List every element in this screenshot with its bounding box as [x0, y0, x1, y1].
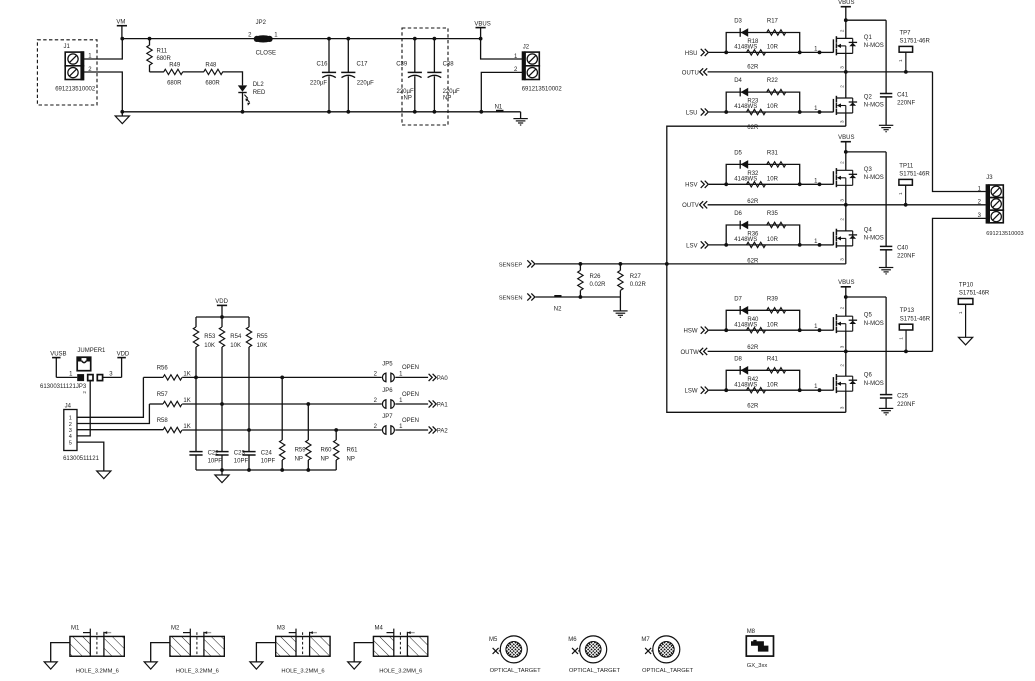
svg-text:10K: 10K: [230, 343, 241, 349]
svg-text:10PF: 10PF: [208, 459, 223, 465]
svg-text:0.02R: 0.02R: [630, 282, 647, 288]
svg-text:10R: 10R: [767, 322, 779, 328]
svg-text:220NF: 220NF: [897, 101, 915, 107]
svg-text:220NF: 220NF: [897, 254, 915, 260]
svg-text:OPTICAL_TARGET: OPTICAL_TARGET: [490, 668, 542, 674]
svg-text:R22: R22: [767, 78, 779, 84]
svg-text:HSW: HSW: [684, 329, 698, 335]
wire SENSEN row: [536, 296, 621, 298]
svg-text:R61: R61: [347, 448, 359, 454]
svg-text:N-MOS: N-MOS: [864, 321, 884, 327]
wire OUTU row: [708, 71, 933, 73]
wire J4 pin1 to row PA0: [77, 377, 143, 417]
svg-text:R57: R57: [157, 392, 169, 398]
svg-text:N-MOS: N-MOS: [864, 43, 884, 49]
svg-text:10K: 10K: [257, 343, 268, 349]
svg-text:R60: R60: [321, 448, 333, 454]
svg-text:220µF: 220µF: [443, 89, 460, 95]
svg-text:JP2: JP2: [256, 20, 267, 26]
transistor Q6 N-MOS: [820, 389, 834, 391]
junction dots: [724, 388, 728, 392]
junction ground rail at J1: [120, 110, 124, 114]
net flag PA0: [429, 374, 433, 381]
capacitor C16 220uF: [327, 37, 331, 41]
wire low-side source loop: [667, 126, 846, 412]
resistor R61 NP: [335, 430, 337, 440]
svg-text:61300511121: 61300511121: [63, 456, 99, 462]
LED DL2 RED: [238, 85, 247, 91]
wire row PA0: [143, 376, 163, 378]
svg-text:D8: D8: [734, 356, 742, 362]
svg-text:10R: 10R: [767, 177, 779, 183]
svg-text:R59: R59: [295, 448, 307, 454]
wire JP6 to PA1: [395, 403, 428, 405]
svg-text:DL2: DL2: [253, 82, 265, 88]
junction loop SENSEP: [665, 262, 669, 266]
svg-text:NP: NP: [443, 96, 451, 102]
svg-text:C40: C40: [897, 246, 909, 252]
ground symbol TP10: [959, 337, 973, 345]
svg-text:HOLE_3.2MM_6: HOLE_3.2MM_6: [176, 668, 219, 674]
svg-text:10PF: 10PF: [261, 459, 276, 465]
svg-text:Q2: Q2: [864, 95, 873, 101]
svg-text:C24: C24: [261, 451, 273, 457]
wire VM top rail: [122, 38, 480, 40]
svg-text:R35: R35: [767, 211, 779, 217]
svg-text:D7: D7: [734, 296, 742, 302]
svg-text:C25: C25: [897, 394, 909, 400]
svg-text:M8: M8: [747, 629, 756, 635]
svg-text:3: 3: [840, 406, 845, 409]
svg-text:PA1: PA1: [437, 402, 449, 408]
resistor R56 1K: [163, 375, 182, 380]
svg-text:R40: R40: [747, 317, 759, 323]
svg-text:3: 3: [840, 345, 845, 348]
svg-text:220µF: 220µF: [397, 89, 414, 95]
svg-text:220µF: 220µF: [357, 81, 374, 87]
ground symbol mid section: [221, 470, 223, 475]
svg-text:R39: R39: [767, 296, 779, 302]
ground rail wire: [122, 111, 520, 113]
svg-text:OPEN: OPEN: [402, 418, 419, 424]
svg-text:0.02R: 0.02R: [590, 282, 607, 288]
junction dots: [724, 182, 728, 186]
diode D5 4148WS: [739, 160, 741, 169]
svg-text:SENSEN: SENSEN: [499, 296, 523, 302]
resistor R27 0.02R: [619, 262, 623, 266]
svg-text:N-MOS: N-MOS: [864, 381, 884, 387]
capacitor C39 220uF NP: [413, 37, 417, 41]
resistor R32 62R: [747, 182, 766, 187]
resistor R55 10K: [248, 317, 250, 327]
svg-text:VBUS: VBUS: [838, 135, 854, 141]
transistor Q4 N-MOS: [820, 244, 834, 246]
svg-text:1: 1: [898, 192, 903, 195]
svg-text:JP6: JP6: [382, 388, 393, 394]
wire VBUS to Q5 drain and bypass branch: [846, 296, 886, 298]
svg-text:VBUS: VBUS: [838, 0, 854, 6]
svg-text:1: 1: [958, 311, 963, 314]
svg-text:TP10: TP10: [959, 282, 974, 288]
wire J1 pin2 to ground rail: [84, 72, 123, 112]
svg-text:D4: D4: [734, 78, 742, 84]
resistor R11 680R: [148, 37, 152, 41]
wire OUTW row: [708, 350, 933, 352]
resistor R18 62R: [747, 50, 766, 55]
capacitor C40 220NF bypass: [885, 152, 887, 247]
resistor R49 680R: [164, 69, 183, 74]
svg-text:R31: R31: [767, 150, 779, 156]
svg-text:2: 2: [82, 391, 87, 394]
resistor R17 10R: [767, 30, 786, 35]
svg-text:1K: 1K: [183, 398, 190, 404]
svg-text:1: 1: [69, 416, 72, 422]
svg-text:M5: M5: [489, 637, 498, 643]
svg-text:2: 2: [69, 422, 72, 428]
resistor R36 62R: [747, 242, 766, 247]
resistor R40 62R: [747, 328, 766, 333]
svg-text:Q3: Q3: [864, 167, 873, 173]
wire gate network D5 branch: [726, 164, 800, 184]
resistor R59 NP: [281, 377, 283, 440]
capacitor C24 10PF: [248, 430, 250, 452]
capacitor C17 220uF: [346, 37, 350, 41]
wire OUTW rise to J3 pin3: [933, 218, 986, 351]
svg-text:62R: 62R: [747, 345, 759, 351]
svg-text:NP: NP: [404, 96, 412, 102]
svg-text:JP5: JP5: [382, 362, 393, 368]
capacitor C25 220NF bypass: [885, 297, 887, 395]
wire R48 to DL2: [222, 72, 242, 86]
wire JP5 to PA0: [395, 376, 428, 378]
transistor Q2 N-MOS: [820, 111, 834, 113]
resistor R60 NP: [307, 404, 309, 440]
svg-text:HSV: HSV: [685, 183, 697, 189]
ground symbol C25: [879, 407, 893, 409]
svg-text:Q6: Q6: [864, 373, 873, 379]
svg-text:M4: M4: [375, 626, 384, 632]
resistor R48 680R: [204, 69, 223, 74]
transistor Q1 N-MOS: [820, 51, 834, 53]
svg-text:3: 3: [840, 66, 845, 69]
wire LSV row: [726, 244, 819, 246]
svg-text:62R: 62R: [747, 403, 759, 409]
wire M1 to ground: [51, 643, 70, 662]
diode D7 4148WS: [739, 306, 741, 315]
wire Q4 source to loop: [667, 263, 846, 265]
svg-text:R18: R18: [747, 39, 759, 45]
capacitor C41 220NF bypass: [885, 20, 887, 93]
svg-text:M7: M7: [641, 637, 650, 643]
svg-text:CLOSE: CLOSE: [256, 51, 276, 57]
svg-text:VUSB: VUSB: [50, 352, 66, 358]
svg-text:HOLE_3.2MM_6: HOLE_3.2MM_6: [281, 668, 324, 674]
svg-text:R17: R17: [767, 19, 779, 25]
svg-text:N-MOS: N-MOS: [864, 236, 884, 242]
svg-text:10R: 10R: [767, 382, 779, 388]
svg-text:N1: N1: [495, 104, 503, 110]
svg-text:5: 5: [69, 440, 72, 446]
transistor Q5 N-MOS: [820, 329, 834, 331]
svg-text:680R: 680R: [167, 80, 182, 86]
wire J2 pin2 to ground rail: [481, 72, 522, 111]
svg-text:OPTICAL_TARGET: OPTICAL_TARGET: [569, 668, 621, 674]
svg-text:NP: NP: [295, 457, 303, 463]
svg-text:SENSEP: SENSEP: [499, 262, 523, 268]
wire J4 pin5 to ground: [77, 442, 104, 471]
svg-text:680R: 680R: [205, 80, 220, 86]
svg-text:S1751-46R: S1751-46R: [900, 39, 931, 45]
wire row PA2: [182, 429, 382, 431]
svg-text:JP7: JP7: [382, 414, 393, 420]
svg-text:1: 1: [898, 59, 903, 62]
svg-text:62R: 62R: [747, 64, 759, 70]
svg-text:R36: R36: [747, 232, 759, 238]
ground symbol M3: [250, 662, 263, 669]
svg-text:R56: R56: [157, 366, 169, 372]
svg-text:691213510003: 691213510003: [986, 231, 1023, 237]
wire M3 to ground: [256, 643, 275, 662]
wire HSU row: [726, 51, 819, 53]
svg-text:10PF: 10PF: [234, 459, 249, 465]
wire J4 pin2 to row PA1: [77, 404, 149, 424]
svg-text:LSU: LSU: [686, 110, 698, 116]
svg-text:220µF: 220µF: [310, 81, 327, 87]
svg-text:GX_3xx: GX_3xx: [747, 663, 768, 669]
svg-text:M1: M1: [71, 626, 80, 632]
ground symbol C41: [879, 124, 893, 126]
wire gate network D6 branch: [726, 225, 800, 245]
svg-text:VM: VM: [116, 19, 125, 25]
svg-text:691213510002: 691213510002: [522, 87, 563, 93]
svg-text:D6: D6: [734, 211, 742, 217]
svg-text:VBUS: VBUS: [474, 21, 490, 27]
svg-text:R23: R23: [747, 99, 759, 105]
svg-text:M3: M3: [277, 626, 286, 632]
svg-text:S1751-46R: S1751-46R: [959, 291, 990, 297]
wire JUMPER1 pin2 to J4 pin4: [77, 381, 90, 436]
svg-text:691213510002: 691213510002: [55, 87, 96, 93]
net flag PA2: [429, 426, 433, 433]
svg-text:2: 2: [840, 29, 845, 32]
svg-text:M6: M6: [568, 637, 577, 643]
svg-text:R48: R48: [205, 63, 217, 69]
svg-text:4: 4: [69, 434, 72, 440]
svg-text:M2: M2: [171, 626, 180, 632]
svg-text:VBUS: VBUS: [838, 280, 854, 286]
wire HSV row: [726, 183, 819, 185]
svg-text:VDD: VDD: [117, 352, 130, 358]
wire LSW row: [726, 389, 819, 391]
diode D8 4148WS: [739, 366, 741, 375]
resistor R41 10R: [767, 368, 786, 373]
svg-text:LSW: LSW: [684, 389, 697, 395]
svg-text:OPEN: OPEN: [402, 392, 419, 398]
transistor Q3 N-MOS: [820, 183, 834, 185]
svg-text:2: 2: [840, 161, 845, 164]
svg-text:R54: R54: [230, 334, 242, 340]
wire row PA1: [149, 403, 163, 405]
wire OUTU drop to J3 pin1: [933, 72, 986, 192]
resistor R23 62R: [747, 109, 766, 114]
wire VBUS to Q3 drain and bypass branch: [846, 151, 886, 153]
capacitor C23 10PF: [221, 404, 223, 452]
svg-text:N-MOS: N-MOS: [864, 175, 884, 181]
wire HSW row: [726, 329, 819, 331]
diode D6 4148WS: [739, 221, 741, 230]
wire LSU row: [726, 111, 819, 113]
svg-text:10K: 10K: [204, 343, 215, 349]
svg-text:R26: R26: [590, 274, 602, 280]
svg-text:2: 2: [840, 364, 845, 367]
ground symbol M1: [44, 662, 57, 669]
wire M4 to ground: [354, 643, 373, 662]
svg-text:R41: R41: [767, 356, 779, 362]
svg-text:PA2: PA2: [437, 428, 449, 434]
svg-text:C39: C39: [396, 62, 408, 68]
svg-text:J4: J4: [65, 404, 72, 410]
ground symbol M2: [144, 662, 157, 669]
svg-text:3: 3: [840, 258, 845, 261]
svg-text:S1751-46R: S1751-46R: [900, 316, 931, 322]
svg-text:C16: C16: [317, 62, 329, 68]
svg-text:3: 3: [840, 199, 845, 202]
svg-text:1K: 1K: [183, 424, 190, 430]
svg-text:10R: 10R: [767, 104, 779, 110]
wire gate network D4 branch: [726, 92, 800, 112]
resistor R57 1K: [163, 401, 182, 406]
svg-text:HOLE_3.2MM_6: HOLE_3.2MM_6: [76, 668, 119, 674]
resistor R35 10R: [767, 222, 786, 227]
wire gate network D3 branch: [726, 33, 800, 53]
svg-text:R11: R11: [157, 49, 168, 55]
wire VDD to JUMPER1 pin3: [103, 376, 122, 378]
svg-text:1: 1: [898, 337, 903, 340]
svg-text:R27: R27: [630, 274, 642, 280]
diode D4 4148WS: [739, 88, 741, 97]
svg-text:1K: 1K: [183, 371, 190, 377]
ground symbol C40: [879, 267, 893, 269]
svg-text:R42: R42: [747, 377, 759, 383]
ground symbol J4: [97, 471, 111, 479]
wire OUTV row to J3 pin2: [708, 204, 986, 206]
svg-text:D3: D3: [734, 19, 742, 25]
ground symbol below VM rail: [121, 112, 123, 116]
svg-text:HOLE_3.2MM_6: HOLE_3.2MM_6: [379, 668, 422, 674]
wire VUSB to JUMPER1 pin1: [56, 376, 77, 378]
connector J1 dashed outline: [37, 40, 97, 105]
junction dots: [724, 243, 728, 247]
svg-text:2: 2: [840, 306, 845, 309]
resistor R22 10R: [767, 89, 786, 94]
svg-text:NP: NP: [347, 457, 355, 463]
svg-text:220NF: 220NF: [897, 402, 915, 408]
diode D3 4148WS: [739, 28, 741, 37]
svg-text:TP13: TP13: [900, 308, 915, 314]
wire J4 pin3 to row PA2: [77, 429, 163, 431]
net flag PA1: [429, 400, 433, 407]
svg-text:R58: R58: [157, 418, 169, 424]
svg-text:HSU: HSU: [685, 51, 698, 57]
svg-text:OUTW: OUTW: [680, 350, 699, 356]
wire VBUS to J2 pin1: [481, 39, 522, 59]
wire R49 to R48: [183, 71, 204, 73]
svg-text:NP: NP: [321, 457, 329, 463]
wire VDD rail: [196, 316, 249, 318]
svg-text:J2: J2: [523, 45, 530, 51]
svg-text:R55: R55: [257, 334, 269, 340]
svg-text:R53: R53: [204, 334, 216, 340]
dashed outline C39 C38 group: [402, 28, 448, 125]
wire R11 to R49: [150, 71, 164, 73]
svg-text:OUTV: OUTV: [682, 203, 699, 209]
ground symbol sense: [619, 297, 621, 311]
wire DL2 to ground rail: [242, 93, 244, 112]
wire VBUS to Q1 drain and bypass branch: [846, 19, 886, 21]
svg-text:3: 3: [840, 120, 845, 123]
svg-text:PA0: PA0: [437, 376, 449, 382]
ground symbol M4: [348, 662, 361, 669]
resistor R58 1K: [163, 427, 182, 432]
resistor R42 62R: [747, 388, 766, 393]
resistor R26 0.02R: [579, 262, 583, 266]
svg-text:RED: RED: [253, 90, 266, 96]
svg-text:OPTICAL_TARGET: OPTICAL_TARGET: [642, 668, 694, 674]
svg-text:680R: 680R: [157, 56, 172, 62]
svg-text:VDD: VDD: [215, 299, 228, 305]
node VBUS junction: [479, 37, 483, 41]
svg-text:R32: R32: [747, 171, 759, 177]
svg-text:R49: R49: [169, 63, 181, 69]
resistor R39 10R: [767, 308, 786, 313]
wire gate network D7 branch: [726, 310, 800, 330]
wire JP7 to PA2: [395, 429, 428, 431]
svg-text:JUMPER1: JUMPER1: [77, 348, 106, 354]
svg-text:N-MOS: N-MOS: [864, 103, 884, 109]
wire J1 pin1 to VM rail: [84, 39, 123, 59]
junction dots: [724, 110, 728, 114]
svg-text:LSV: LSV: [686, 243, 697, 249]
svg-text:62R: 62R: [747, 199, 759, 205]
svg-text:61300311121JP3: 61300311121JP3: [40, 384, 87, 390]
resistor R53 10K: [195, 317, 197, 327]
svg-text:10R: 10R: [767, 237, 779, 243]
svg-text:J3: J3: [986, 175, 993, 181]
capacitor C22 10PF: [195, 377, 197, 451]
resistor R54 10K: [221, 317, 223, 327]
svg-text:Q4: Q4: [864, 227, 873, 233]
resistor R31 10R: [767, 162, 786, 167]
svg-text:10R: 10R: [767, 45, 779, 51]
net tie N2: [554, 295, 561, 297]
svg-text:OPEN: OPEN: [402, 365, 419, 371]
capacitor C38 220uF NP: [433, 37, 437, 41]
svg-text:N2: N2: [554, 306, 562, 312]
svg-text:2: 2: [840, 218, 845, 221]
svg-text:C17: C17: [357, 62, 369, 68]
svg-text:J1: J1: [64, 44, 71, 50]
junction dots: [724, 51, 728, 55]
junction dots: [724, 328, 728, 332]
wire bottom gnd rail mid section: [196, 469, 336, 471]
svg-text:TP11: TP11: [899, 163, 914, 169]
wire SENSEP row: [536, 263, 667, 265]
svg-text:D5: D5: [734, 150, 742, 156]
svg-text:C41: C41: [897, 93, 909, 99]
svg-text:2: 2: [840, 85, 845, 88]
wire gate network D8 branch: [726, 370, 800, 390]
svg-text:OUTU: OUTU: [682, 70, 699, 76]
